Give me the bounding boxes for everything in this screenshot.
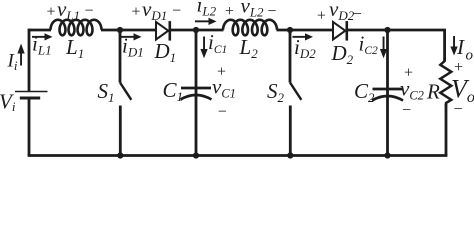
svg-text:−: − <box>454 101 463 118</box>
wire C2 branch <box>386 30 389 156</box>
wire top rail Vi to L1 <box>29 29 51 32</box>
svg-text:vD2: vD2 <box>329 0 355 23</box>
capacitor C2 <box>372 89 403 101</box>
diode D1 <box>156 21 170 40</box>
node bottom S1 <box>117 152 123 158</box>
diode D2 <box>333 21 347 40</box>
svg-text:vD1: vD1 <box>142 0 167 23</box>
switch S2 blade <box>290 83 301 100</box>
node D top D2/C2 <box>384 27 390 33</box>
node C top L2/S2/D2 <box>287 27 293 33</box>
node B top D1/C1/L2 <box>193 27 199 33</box>
node bottom S2 <box>287 152 293 158</box>
node bottom C1 <box>193 152 199 158</box>
voltage source Vi battery <box>15 92 48 99</box>
svg-text:−: − <box>218 104 227 121</box>
wire top rail L2 to D2 <box>277 29 334 32</box>
current arrow I_i up <box>17 44 24 66</box>
inductor L2 <box>223 20 277 36</box>
svg-text:L1: L1 <box>65 35 84 61</box>
svg-text:+: + <box>317 8 326 25</box>
current arrow i_L1 <box>32 33 53 40</box>
svg-text:+: + <box>47 4 56 21</box>
svg-text:−: − <box>172 3 181 20</box>
current arrow i_C2 down <box>380 37 387 59</box>
svg-text:vL1: vL1 <box>57 0 80 23</box>
current arrow i_D2 <box>293 33 314 40</box>
wire S2 bottom stub <box>289 106 292 156</box>
svg-text:−: − <box>353 6 362 23</box>
svg-text:−: − <box>402 102 411 119</box>
wire top rail L1 to D1 <box>101 29 156 32</box>
switch S1 blade <box>120 83 131 100</box>
wire left branch above battery <box>28 29 31 91</box>
svg-text:+: + <box>454 59 463 76</box>
svg-text:D2: D2 <box>331 41 354 67</box>
svg-text:Ii: Ii <box>7 51 18 74</box>
svg-text:iL2: iL2 <box>197 0 217 19</box>
wire bottom rail <box>28 154 448 157</box>
wire C1 branch <box>195 30 198 156</box>
svg-text:iC1: iC1 <box>208 30 227 56</box>
current arrow i_C1 down <box>200 37 207 59</box>
wire S2 top stub <box>289 30 292 83</box>
node bottom C2 <box>384 152 390 158</box>
svg-text:+: + <box>225 3 234 20</box>
svg-text:S1: S1 <box>98 79 115 105</box>
current arrow i_D1 <box>121 33 142 40</box>
wire left branch below battery <box>28 98 31 156</box>
svg-text:R: R <box>426 80 440 104</box>
capacitor C1 <box>181 88 212 100</box>
svg-text:+: + <box>132 4 141 21</box>
wire S1 bottom stub <box>119 106 122 156</box>
wire top rail D2 to top-right corner and down <box>348 30 445 61</box>
resistor R <box>440 58 451 106</box>
current arrow i_L2 <box>195 18 217 25</box>
svg-text:L2: L2 <box>239 35 259 61</box>
svg-text:C1: C1 <box>163 78 184 104</box>
svg-text:D1: D1 <box>154 39 177 65</box>
svg-text:vL2: vL2 <box>241 0 265 20</box>
wire top rail D1 to L2 <box>171 29 224 32</box>
inductor L1 <box>51 20 102 36</box>
svg-text:−: − <box>85 3 94 20</box>
wire S1 top stub <box>119 30 122 83</box>
svg-text:Vi: Vi <box>0 90 16 115</box>
svg-text:−: − <box>267 3 276 20</box>
wire right branch below resistor R <box>445 104 448 156</box>
svg-text:iC2: iC2 <box>359 31 379 57</box>
node A top S1/L1/D1 <box>117 27 123 33</box>
svg-text:C2: C2 <box>354 79 375 105</box>
svg-text:S2: S2 <box>267 79 285 105</box>
current arrow I_o down <box>450 36 457 56</box>
